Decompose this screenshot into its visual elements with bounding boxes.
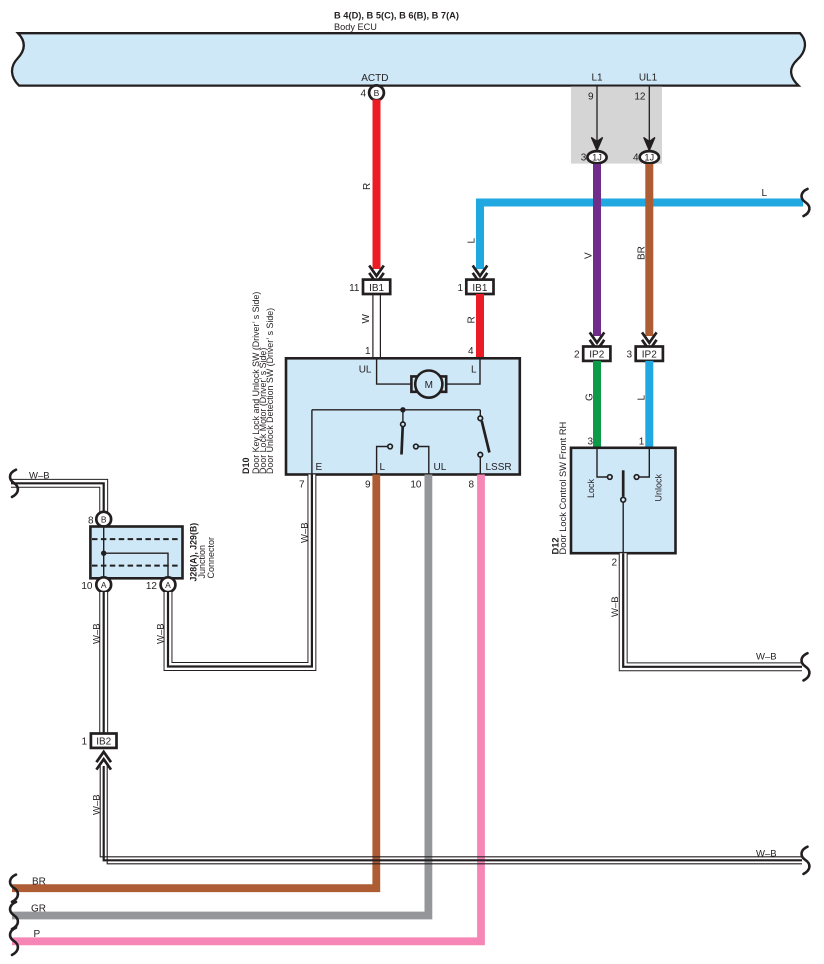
svg-text:11: 11 [349,283,360,294]
svg-text:2: 2 [611,558,617,569]
connector 1J (pin 3) [581,151,607,163]
junction connector J28(A), J29(B) box [90,527,182,579]
svg-text:UL: UL [434,462,447,473]
svg-text:ACTD: ACTD [361,73,388,84]
svg-text:Connector: Connector [206,537,216,579]
svg-text:P: P [34,929,41,940]
svg-text:2: 2 [574,350,580,361]
wire W-B from left break to junction connector B [11,471,104,513]
motor M [411,371,446,398]
svg-text:12: 12 [146,581,158,592]
D10 side labels [241,292,275,474]
svg-text:A: A [165,580,171,590]
wire L1 pin9 to 1J [588,86,602,150]
wire W (white) IB1 11 to D10 pin 1 [361,294,380,358]
arrow into IP2 pin 3 [642,332,657,350]
wire BR (brown) 1J to IP2 pin 3 [637,164,650,336]
connector 1J (pin 4) [633,151,659,163]
switch bus wire [312,409,480,411]
svg-text:9: 9 [588,92,594,103]
wire V (violet) 1J to IP2 pin 2 [584,164,598,336]
connector B circle (Body ECU pin 4) [360,85,383,100]
key lock/unlock switch (center) [377,410,429,475]
svg-text:1: 1 [365,346,371,357]
wire break (GR left end) [10,902,18,929]
junction connector side labels [189,523,217,582]
wire W-B from D12 pin 2 to right break [610,553,802,667]
connector IB1 pin 11 [349,280,390,294]
junction connector dashed bus lines [92,538,181,540]
svg-text:R: R [467,316,478,323]
svg-text:1: 1 [639,437,645,448]
svg-text:W–B: W–B [92,623,103,644]
svg-text:L1: L1 [591,73,603,84]
wire R (red) IB1 1 to D10 pin 4 [467,294,481,358]
svg-text:3: 3 [581,153,587,164]
svg-text:Door Unlock Detection SW (Driv: Door Unlock Detection SW (Driver’ s Side… [265,308,275,474]
D10 component box [286,358,520,474]
svg-text:L: L [637,395,648,401]
unlock contact [634,475,639,480]
wire break (L right end) [802,189,810,216]
svg-text:L: L [762,188,768,199]
svg-text:4: 4 [468,346,474,357]
shield/junction shaded area [571,87,662,164]
wire W-B white core (under) [104,766,802,860]
svg-text:D10: D10 [241,457,251,474]
svg-text:8: 8 [468,480,474,491]
connector IP2 pin 3 [626,347,662,361]
wire GR (grey) D10 pin 10 to left break [12,475,428,916]
wire break (bottom W-B right end) [802,847,810,874]
svg-text:12: 12 [634,92,646,103]
svg-text:A: A [101,580,107,590]
lock contact [608,475,613,480]
svg-text:10: 10 [410,480,422,491]
svg-text:IB1: IB1 [472,283,487,294]
wire lock contact [597,448,608,477]
junction node [101,551,106,556]
wire break (P left end) [10,928,18,955]
wire W-B pin10 to IB2 [92,592,104,734]
wire break (D12 W-B right end) [802,653,810,680]
arrow up into IB2 [96,752,111,770]
svg-text:Lock: Lock [586,478,596,498]
svg-text:3: 3 [587,437,593,448]
wire P (pink) D10 pin 8 to left break [12,475,481,942]
wire UL1 pin12 to 1J [634,86,654,150]
wire break (BR left end) [10,875,18,902]
svg-text:Door Lock Control SW Front RH: Door Lock Control SW Front RH [558,422,568,555]
unlock detection switch LSSR [478,410,489,475]
svg-text:IB1: IB1 [369,283,384,294]
svg-text:G: G [585,393,596,401]
svg-text:V: V [584,252,595,259]
svg-text:UL1: UL1 [639,73,658,84]
connector B circle (junction connector pin 8) [88,512,111,527]
wire unlock contact [639,448,649,477]
svg-text:R: R [362,183,373,190]
D12 side labels [551,422,569,555]
connector A circle (junction connector pin 10) [81,577,111,592]
connector A circle (junction connector pin 12) [146,577,176,592]
svg-text:L: L [471,365,477,376]
svg-text:E: E [316,462,323,473]
Body ECU bus band [12,33,805,85]
svg-text:8: 8 [88,516,94,527]
svg-text:W–B: W–B [156,623,167,644]
connector IP2 pin 2 [574,347,610,361]
svg-text:4: 4 [633,153,639,164]
svg-text:B 4(D), B 5(C), B 6(B), B 7(A): B 4(D), B 5(C), B 6(B), B 7(A) [334,11,459,21]
control switch lever [621,470,626,553]
wire through junction connector [103,527,105,579]
arrow into IB1 pin 1 [473,266,488,284]
svg-text:BR: BR [637,246,648,260]
svg-text:1: 1 [81,737,87,748]
svg-text:IP2: IP2 [589,350,604,361]
junction node [400,407,405,412]
svg-text:9: 9 [365,480,371,491]
svg-text:GR: GR [31,904,46,915]
svg-text:B: B [101,514,107,524]
svg-text:Unlock: Unlock [654,473,664,501]
svg-text:L: L [380,462,386,473]
svg-text:M: M [425,380,433,391]
svg-text:W: W [361,314,372,324]
svg-text:BR: BR [32,877,46,888]
svg-text:L: L [467,238,478,244]
wire W-B pin12 to D10 pin 7 [156,475,312,667]
svg-text:Body ECU: Body ECU [334,22,377,32]
svg-text:LSSR: LSSR [486,462,512,473]
connector IB1 pin 1 [457,280,493,294]
wire W-B IB2 to bottom right break [92,794,777,859]
svg-text:W–B: W–B [29,471,50,482]
arrow into IB1 pin 11 [369,266,384,284]
svg-text:W–B: W–B [756,652,777,663]
wire junction to pin 12 [104,553,168,578]
wire L (light blue) IP2 to D12 pin 1 [637,361,650,448]
svg-text:UL: UL [359,365,372,376]
wire L entry to motor [446,358,480,384]
svg-text:7: 7 [299,480,305,491]
arrow into IP2 pin 2 [590,332,605,350]
svg-text:4: 4 [360,88,366,99]
wire W-B IB2 to bottom right break (over colored wires) [100,766,802,864]
svg-text:1J: 1J [644,152,654,162]
svg-text:B: B [374,88,380,98]
wire break (left W-B end) [10,470,18,497]
svg-text:W–B: W–B [610,596,621,617]
svg-text:1J: 1J [592,152,602,162]
wire G (green) IP2 to D12 pin 3 [585,361,598,448]
svg-text:10: 10 [81,581,93,592]
wire L (light blue) from right break to IB1 pin 1 [467,188,804,269]
svg-text:3: 3 [626,350,632,361]
svg-text:1: 1 [457,283,463,294]
wire E branch [311,410,313,475]
svg-text:IB2: IB2 [96,737,111,748]
svg-text:W–B: W–B [300,522,311,543]
D12 component box [571,448,676,553]
svg-text:IP2: IP2 [642,350,657,361]
wire UL entry to motor [377,358,411,384]
connector IB2 pin 1 [81,734,116,748]
wire R (red) Body ECU ACTD to IB1 pin 11 [362,100,377,270]
wire BR (brown) D10 pin 9 to left break [12,475,376,889]
